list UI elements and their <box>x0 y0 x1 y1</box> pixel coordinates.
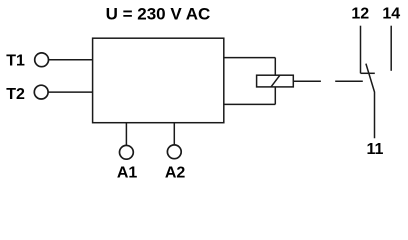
svg-text:14: 14 <box>382 6 400 23</box>
svg-text:A1: A1 <box>117 165 138 182</box>
svg-text:11: 11 <box>367 141 384 158</box>
svg-text:T1: T1 <box>6 53 25 70</box>
svg-text:U = 230 V AC: U = 230 V AC <box>106 5 211 24</box>
svg-text:A2: A2 <box>165 165 186 182</box>
svg-text:T2: T2 <box>6 86 25 103</box>
svg-text:12: 12 <box>351 6 369 23</box>
